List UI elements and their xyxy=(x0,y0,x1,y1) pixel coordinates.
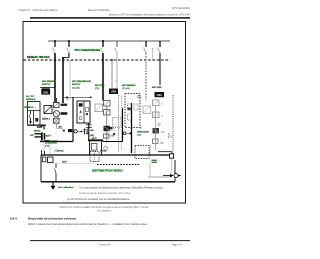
dashed boundary line xyxy=(24,59,171,61)
meter circle xyxy=(104,147,108,151)
svg-text:(x): (x) xyxy=(66,99,69,101)
right green label pair xyxy=(137,132,149,137)
svg-text:Manuel d'utilisation: Manuel d'utilisation xyxy=(88,8,111,12)
wire from Q6 xyxy=(159,53,161,85)
label eq xyxy=(152,160,157,161)
inverter box X xyxy=(54,118,60,123)
svg-text:Schéma 5-6: Schéma unifilaire: Schéma 5-6: Schéma unifilaire distributi… xyxy=(59,206,149,209)
connector circle on module edge xyxy=(74,130,77,133)
battery box xyxy=(91,144,97,151)
dashed sub box right xyxy=(135,146,149,159)
svg-text:48V DEM: 48V DEM xyxy=(152,86,162,89)
svg-text:UR1: UR1 xyxy=(43,90,49,94)
breaker Q1 xyxy=(53,40,56,53)
center panel xyxy=(77,101,90,123)
svg-text:(C4): (C4) xyxy=(137,135,141,137)
wire drop b xyxy=(49,141,51,155)
svg-text:BATT: BATT xyxy=(46,134,52,137)
inner switch xyxy=(55,164,57,182)
svg-text:CHARGEUR: CHARGEUR xyxy=(45,142,58,145)
right dc-dc 1 xyxy=(153,100,160,106)
riser node circle xyxy=(158,123,160,125)
tag bar 2 xyxy=(61,112,68,115)
svg-text:Celette SA: Celette SA xyxy=(99,244,111,247)
svg-text:de puissance: de puissance xyxy=(97,210,111,212)
svg-text:(C2): (C2) xyxy=(95,88,100,90)
svg-text:48V RESEAU: 48V RESEAU xyxy=(42,80,56,83)
svg-text:UR3: UR3 xyxy=(157,93,163,97)
svg-text:*) La commutation de distribut: *) La commutation de distribution pour m… xyxy=(79,187,163,190)
svg-text:SUPPLY: SUPPLY xyxy=(42,84,51,86)
label right supply xyxy=(122,84,136,90)
internal wire h xyxy=(56,127,63,129)
right dotted riser xyxy=(172,95,174,152)
right rectifier slash box xyxy=(143,106,151,114)
svg-text:A) Voir C14 Fils de commande p: A) Voir C14 Fils de commande pour le Con… xyxy=(67,198,130,201)
svg-text:Page 5-9: Page 5-9 xyxy=(172,244,182,247)
column riser xyxy=(106,106,108,138)
svg-text:48V DEMARRAGE: 48V DEMARRAGE xyxy=(72,80,91,83)
wire from Q1 xyxy=(54,53,56,103)
right top link xyxy=(158,152,174,159)
inner fuse box A xyxy=(42,157,46,162)
wire riser x112 xyxy=(111,59,113,88)
breaker Q5 xyxy=(144,41,147,53)
wire from Q4 xyxy=(116,53,118,88)
wire drop a xyxy=(43,141,45,155)
battery assembly header xyxy=(88,139,103,141)
internal feed block xyxy=(68,129,72,132)
label 48V main supply xyxy=(42,80,56,90)
wire connector to terminals xyxy=(77,130,84,132)
label charger xyxy=(45,142,58,148)
svg-text:ONDULEUR: ONDULEUR xyxy=(137,132,149,134)
dc-dc box 2 xyxy=(104,110,111,116)
wire gray riser xyxy=(69,60,71,96)
column wire xyxy=(55,98,57,103)
terminal bar T2 xyxy=(86,129,88,135)
wire bus under module xyxy=(40,140,58,142)
mid dotted sub-box xyxy=(113,118,122,127)
label dc bus xyxy=(90,129,94,137)
svg-text:RESEAU →: RESEAU → xyxy=(24,106,36,109)
dashed riser pair xyxy=(119,95,122,151)
label AC/DC module xyxy=(26,95,36,101)
right dc-dc 2 xyxy=(153,112,160,118)
capacitor C1 xyxy=(86,125,92,128)
svg-text:(B1): (B1) xyxy=(53,109,57,111)
input cabinet box xyxy=(28,102,41,126)
inner gray line xyxy=(53,163,97,165)
junction dot xyxy=(81,131,83,133)
svg-text:Chapitre 5 - Colonnes des stat: Chapitre 5 - Colonnes des stations xyxy=(18,8,58,12)
left module outline xyxy=(40,97,73,141)
square drop wire xyxy=(171,158,173,172)
aux contact block xyxy=(35,118,38,122)
svg-text:48V DEM: 48V DEM xyxy=(95,84,105,87)
svg-text:RESEAU 400 VAC: RESEAU 400 VAC xyxy=(27,55,50,59)
wire from Q2 xyxy=(62,53,69,103)
battery drop right xyxy=(101,141,103,155)
right contactor xyxy=(153,128,160,133)
contactor K1 xyxy=(104,126,111,131)
svg-text:DISTRIBUTION 48VDC: DISTRIBUTION 48VDC xyxy=(92,169,124,173)
inner right line xyxy=(148,176,172,178)
meter arc xyxy=(168,133,173,139)
rectifier slash box xyxy=(95,104,103,112)
svg-text:MODULE: MODULE xyxy=(26,99,36,101)
svg-text:AC / DC: AC / DC xyxy=(26,95,35,98)
svg-text:BATT: BATT xyxy=(92,137,98,140)
svg-text:(x: (x xyxy=(159,160,161,162)
svg-text:(C1-B4): (C1-B4) xyxy=(122,88,130,90)
breaker Q4 xyxy=(115,41,118,53)
separator bar xyxy=(131,103,133,153)
small breaker mark xyxy=(44,134,51,142)
right column riser xyxy=(155,106,157,151)
wire step from cabinet xyxy=(37,125,44,127)
rectifier block xyxy=(44,106,52,114)
converter circle G1 xyxy=(53,111,59,117)
inner dashed line xyxy=(97,164,140,166)
output down arrow xyxy=(51,182,56,190)
svg-text:CPS SabreNMx: CPS SabreNMx xyxy=(172,6,191,10)
wire bend to connector xyxy=(43,125,45,129)
svg-text:UR2: UR2 xyxy=(111,90,117,94)
schematic frame xyxy=(23,22,186,204)
breaker Q2 xyxy=(67,40,70,53)
svg-text:48VDC: 48VDC xyxy=(57,150,64,153)
module bottom bar xyxy=(28,124,47,126)
internal wire xyxy=(55,123,57,128)
right module dotted box xyxy=(125,94,140,128)
terminal bar T1 xyxy=(83,129,85,135)
svg-text:Dispositifs de protection exte: Dispositifs de protection externes xyxy=(28,216,77,220)
breaker Q6 xyxy=(158,41,161,53)
svg-text:Schéma n°574 de l'installation: Schéma n°574 de l'installation électriqu… xyxy=(109,13,191,17)
nameplate UR3 xyxy=(155,92,165,97)
top AC bus xyxy=(48,40,170,42)
svg-text:(C3): (C3) xyxy=(45,146,49,148)
mid module outline xyxy=(103,108,123,142)
nameplate UR1 xyxy=(41,89,50,95)
mid connector circle xyxy=(123,132,126,135)
tag bar 1 xyxy=(61,104,68,106)
svg-text:(A): (A) xyxy=(161,142,164,145)
svg-text:REDR 1: REDR 1 xyxy=(42,119,51,121)
battery drop left xyxy=(89,141,91,155)
crossed wires mark xyxy=(54,149,58,152)
label above dist box left xyxy=(57,150,64,153)
mid junction dot xyxy=(130,132,132,134)
svg-text:48V RESEAU: 48V RESEAU xyxy=(122,84,136,87)
sensor box xyxy=(104,134,110,138)
svg-text:48VDC: 48VDC xyxy=(100,150,107,153)
svg-text:SUPPLY: SUPPLY xyxy=(72,84,81,86)
svg-text:(C2-B4): (C2-B4) xyxy=(72,88,80,90)
svg-text:5.8.4: 5.8.4 xyxy=(10,216,17,220)
svg-text:Vers utilisation: Vers utilisation xyxy=(58,186,74,189)
svg-text:lorsque la charge dépasse la c: lorsque la charge dépasse la capacité d'… xyxy=(79,192,131,195)
inner right riser xyxy=(149,164,151,177)
wire from Q3 xyxy=(102,53,104,101)
dc-dc box 1 xyxy=(104,101,111,107)
label 48V start supply xyxy=(72,80,91,90)
header rule xyxy=(30,17,190,18)
svg-text:(B2): (B2) xyxy=(90,135,94,137)
label mid supply xyxy=(95,84,105,90)
dashed sub box xyxy=(90,152,99,162)
dc riser bar xyxy=(88,123,90,140)
breaker Q3 xyxy=(101,40,104,53)
distribution box xyxy=(41,155,175,182)
right sensor xyxy=(153,139,159,144)
svg-text:PPU DEMARRAGE: PPU DEMARRAGE xyxy=(75,48,101,52)
mid module marks xyxy=(107,127,115,135)
stub wire mid right xyxy=(152,48,154,60)
disconnect switch S1 xyxy=(29,111,32,124)
internal mark xyxy=(63,130,65,132)
feed bar above UR1 xyxy=(40,87,55,89)
entry bracket left xyxy=(42,150,45,155)
inner fuse box B xyxy=(48,157,54,163)
nameplate UR2 xyxy=(109,89,118,95)
wires into distribution box xyxy=(107,138,150,155)
svg-text:Définir / exécuter les interru: Définir / exécuter les interrupteurs/dis… xyxy=(28,223,148,226)
wire from Q5 xyxy=(145,53,147,100)
output connector xyxy=(163,174,182,178)
mid wire xyxy=(126,132,131,134)
footer rule xyxy=(30,240,190,241)
svg-text:+( ): +( ) xyxy=(114,81,117,83)
connector plug xyxy=(35,132,46,140)
svg-text:48Vdc: 48Vdc xyxy=(34,130,41,133)
svg-text:+(-): +(-) xyxy=(139,127,143,130)
filter box F xyxy=(54,103,60,108)
junction arrow A xyxy=(63,96,92,100)
right column labels xyxy=(161,104,165,145)
